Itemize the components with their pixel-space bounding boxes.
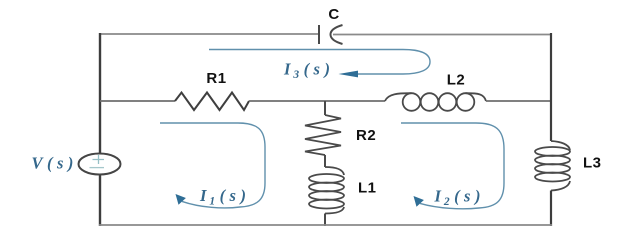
wire right vertical lower	[550, 191, 552, 227]
svg-text:L2: L2	[447, 72, 466, 89]
wire right vertical upper	[550, 33, 552, 141]
svg-text:I3(s): I3(s)	[283, 60, 334, 82]
svg-text:V(s): V(s)	[32, 154, 78, 173]
wire bottom	[99, 224, 552, 226]
svg-text:R1: R1	[206, 70, 226, 87]
inductor L2	[385, 93, 486, 111]
svg-text:L3: L3	[583, 155, 602, 172]
svg-text:I1(s): I1(s)	[199, 186, 250, 208]
wire middle branch top lead	[324, 101, 326, 115]
wire below L1	[324, 214, 326, 227]
resistor R2	[305, 115, 341, 155]
resistor R1	[175, 93, 249, 111]
inductor L1	[309, 167, 344, 214]
wire between R2 and L1	[324, 155, 326, 167]
wire middle horizontal left of R1	[100, 100, 175, 102]
wire top-left segment	[100, 33, 318, 35]
wire middle horizontal between R1 and L2	[249, 100, 385, 102]
mesh loop I3	[209, 50, 430, 78]
capacitor C	[319, 25, 343, 44]
wire middle horizontal right of L2	[486, 100, 551, 102]
mesh loop I1	[160, 123, 265, 208]
inductor L3	[535, 141, 570, 191]
svg-text:C: C	[328, 6, 339, 23]
svg-text:I2(s): I2(s)	[434, 187, 485, 209]
wire top-right segment	[333, 34, 551, 36]
svg-text:R2: R2	[356, 127, 376, 144]
wire left vertical lower	[99, 175, 101, 227]
voltage source V(s)	[79, 154, 121, 175]
wire left vertical upper	[99, 33, 101, 154]
svg-text:L1: L1	[358, 180, 377, 197]
mesh loop I2	[401, 123, 504, 209]
